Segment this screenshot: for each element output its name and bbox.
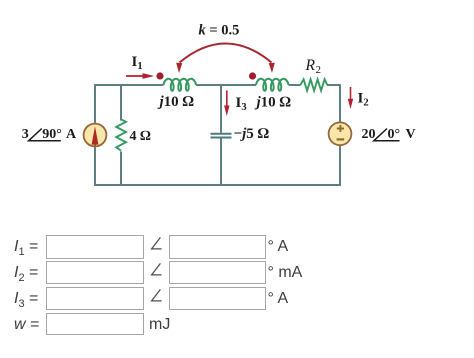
svg-text:k = 0.5: k = 0.5 [199,23,240,39]
angle symbol row 2 [150,262,163,277]
voltage source VS [329,122,352,145]
input: I3 angle [169,287,266,310]
angle symbol row 3 [150,288,163,303]
resistor R2 [300,79,327,90]
svg-text:V: V [406,127,416,142]
wire: bottom horizontal [94,184,341,186]
resistor 4-ohm [116,119,126,150]
wire: left vertical branch [94,84,96,186]
wire: top-middle horizontal segment [196,84,256,86]
label: I1 (top branch current) [132,54,143,72]
label: 4 ohm (resistor value) [130,129,152,144]
arrow: current I2 [348,87,353,109]
svg-text:4 Ω: 4 Ω [130,129,152,144]
svg-text:R: R [305,57,316,74]
label: j10 ohm (L2 value) [255,95,292,111]
svg-text:I2: I2 [358,91,369,109]
dot: polarity dot of L2 [249,72,256,79]
svg-text:j10 Ω: j10 Ω [158,94,195,110]
svg-text:2: 2 [316,64,322,76]
unit row 4: mJ [149,316,170,334]
svg-text:A: A [66,127,77,142]
label: I3 (capacitor branch current) [236,95,247,113]
svg-text:I1: I1 [132,54,143,72]
label: R2 (resistor reference) [305,57,322,76]
angle symbol row 1 [150,236,163,251]
answer form row 2: I2 label [14,264,38,284]
answer form row 1: I1 label [14,238,38,258]
svg-text:90°: 90° [42,127,62,142]
wire: top-right horizontal segment [289,84,341,86]
wire: right vertical branch [339,84,341,186]
arrow: current I1 [126,73,154,79]
wire: top-left horizontal segment [95,84,164,86]
label: I2 (right branch current) [358,91,369,109]
svg-text:I3: I3 [236,95,247,113]
input: I2 angle [169,261,266,284]
inductor L1 [164,79,197,91]
label: -j5 ohm (capacitor value) [234,126,270,142]
svg-text:−j5 Ω: −j5 Ω [234,126,270,142]
answer form row 3: I3 label [14,290,38,310]
current source IS [84,124,107,147]
wire: capacitor branch vertical leads [220,84,222,185]
answer form row 4: w label [14,316,39,334]
label: 3 angle 90deg A (current source value) [22,127,77,142]
label: j10 ohm (L1 value) [158,94,195,110]
svg-text:20: 20 [362,127,376,142]
svg-text:0°: 0° [388,127,401,142]
label: k = 0.5 (coupling coefficient) [199,23,240,39]
input: I2 magnitude [46,261,144,284]
svg-text:3: 3 [22,127,29,142]
arrow: current I3 [224,91,229,117]
label: 20 angle 0deg V (voltage source value) [362,127,416,142]
dot: polarity dot of L1 [156,72,163,79]
wire: 4-ohm branch vertical leads [120,84,122,185]
inductor L2 [256,79,289,91]
unit row 2: deg mA [268,264,303,282]
coupling arc with arrowheads [176,44,275,74]
input: w energy [46,313,144,336]
svg-text:j10 Ω: j10 Ω [255,95,292,111]
input: I3 magnitude [46,287,144,310]
unit row 1: deg A [268,238,289,256]
input: I1 angle [169,235,266,259]
input: I1 magnitude [46,235,144,259]
unit row 3: deg A [268,290,289,308]
capacitor C [211,134,232,138]
